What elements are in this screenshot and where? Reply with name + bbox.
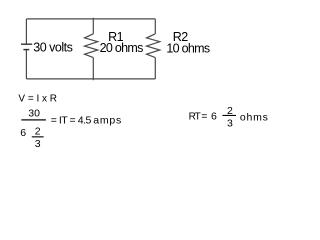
svg-text:10 ohms: 10 ohms (166, 41, 209, 55)
svg-text:3: 3 (227, 118, 233, 130)
svg-text:30: 30 (28, 108, 40, 120)
svg-text:20 ohms: 20 ohms (100, 41, 143, 55)
svg-text:6: 6 (211, 110, 217, 122)
svg-text:RT: RT (189, 111, 201, 122)
svg-text:6: 6 (20, 127, 26, 139)
svg-text:V = I x R: V = I x R (18, 94, 57, 105)
svg-text:= IT = 4.5: = IT = 4.5 (51, 115, 92, 127)
svg-text:2: 2 (227, 105, 233, 117)
svg-text:=: = (201, 110, 207, 122)
svg-text:2: 2 (35, 125, 41, 137)
svg-text:amps: amps (93, 115, 122, 127)
svg-text:3: 3 (35, 138, 41, 150)
svg-text:30 volts: 30 volts (33, 40, 72, 54)
svg-text:ohms: ohms (240, 111, 269, 123)
